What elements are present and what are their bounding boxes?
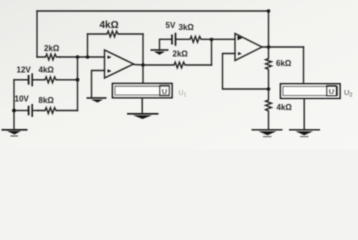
svg-text:4kΩ: 4kΩ (39, 66, 55, 75)
wire U2 output drop to meter U2 (303, 47, 305, 84)
wire left vertical joining battery rows (13, 80, 15, 129)
wire left drop from top rail to 2k resistor row (36, 11, 38, 57)
node D junction dot (summing node) (210, 38, 214, 42)
battery V1 12V (14, 79, 28, 81)
svg-text:5V: 5V (166, 21, 176, 30)
svg-text:2kΩ: 2kΩ (173, 50, 189, 59)
op-amp U1 (105, 50, 134, 78)
wire U1 output (134, 64, 144, 67)
node C junction dot (U1 output) (141, 63, 145, 67)
ground G1 (bottom left) (2, 130, 28, 136)
wire U2 output (262, 46, 304, 48)
svg-text:U: U (329, 87, 334, 96)
ground G3 (meter U1) (127, 114, 159, 119)
wire meter U1 to ground (141, 98, 143, 113)
battery V2 10V (14, 110, 28, 112)
svg-text:4kΩ: 4kΩ (100, 20, 119, 31)
svg-text:12V: 12V (17, 66, 32, 75)
wire vertical input bus at x=77.5 (77, 57, 79, 111)
voltmeter U2 box (281, 84, 341, 99)
svg-text:U: U (162, 87, 167, 96)
battery V3 5V (172, 33, 176, 46)
ground G6 (meter U2) (289, 130, 320, 137)
op-amp U2 (235, 34, 262, 61)
svg-text:4kΩ: 4kΩ (277, 103, 293, 112)
wire op-amp U1 non-inverting input to ground (92, 71, 105, 98)
wire meter U2 to ground (303, 98, 305, 129)
svg-text:10V: 10V (15, 95, 30, 104)
resistor R1 2k ohm (series from top rail to node A) (37, 54, 60, 60)
resistor R4 4k ohm (U1 feedback) (88, 31, 144, 37)
wire drop from U1 output node to meter U1 (142, 65, 144, 83)
resistor R7 6k ohm (divider top, vertical) (266, 47, 272, 89)
resistor R3 8k ohm (row 2) (38, 108, 78, 114)
wire op-amp U2 non-inverting input from divider tap (223, 54, 269, 90)
resistor R5 2k ohm (U1 output to summing node) (143, 62, 212, 68)
wire feedback drop to U1 output node (142, 34, 144, 65)
junction dot top rail corner (267, 9, 271, 13)
voltmeter U1 box (113, 84, 173, 98)
resistor R8 4k ohm (divider bottom, vertical) (266, 89, 272, 129)
junction dot left vertical / row 2 (12, 109, 16, 113)
wire summing node drop to R5 (211, 40, 213, 66)
resistor R2 4k ohm (row 1) (38, 77, 78, 83)
node F junction dot (divider tap) (267, 87, 271, 91)
junction dot bus / 4k row (76, 78, 80, 82)
node B junction dot (feedback tap) (86, 55, 90, 59)
wire output riser to top rail (268, 11, 270, 47)
wire node A line into op-amp U1 inverting input (60, 56, 105, 58)
wire top feedback rail from node A to op-amp U2 output (37, 10, 269, 12)
wire feedback riser from node B (87, 34, 89, 57)
ground G4 (5V battery return) (151, 50, 169, 55)
resistor R6 3k ohm (176, 36, 235, 42)
ground G2 (U1 + input) (87, 98, 107, 103)
node A junction dot (76, 55, 80, 59)
wire ground riser to 5V battery (160, 39, 172, 50)
node E junction dot (U2 output) (267, 45, 271, 49)
svg-text:3kΩ: 3kΩ (179, 23, 195, 32)
svg-text:8kΩ: 8kΩ (39, 96, 55, 105)
svg-text:6kΩ: 6kΩ (276, 59, 292, 68)
svg-text:2kΩ: 2kΩ (44, 44, 60, 53)
ground G5 (divider bottom) (252, 130, 283, 137)
